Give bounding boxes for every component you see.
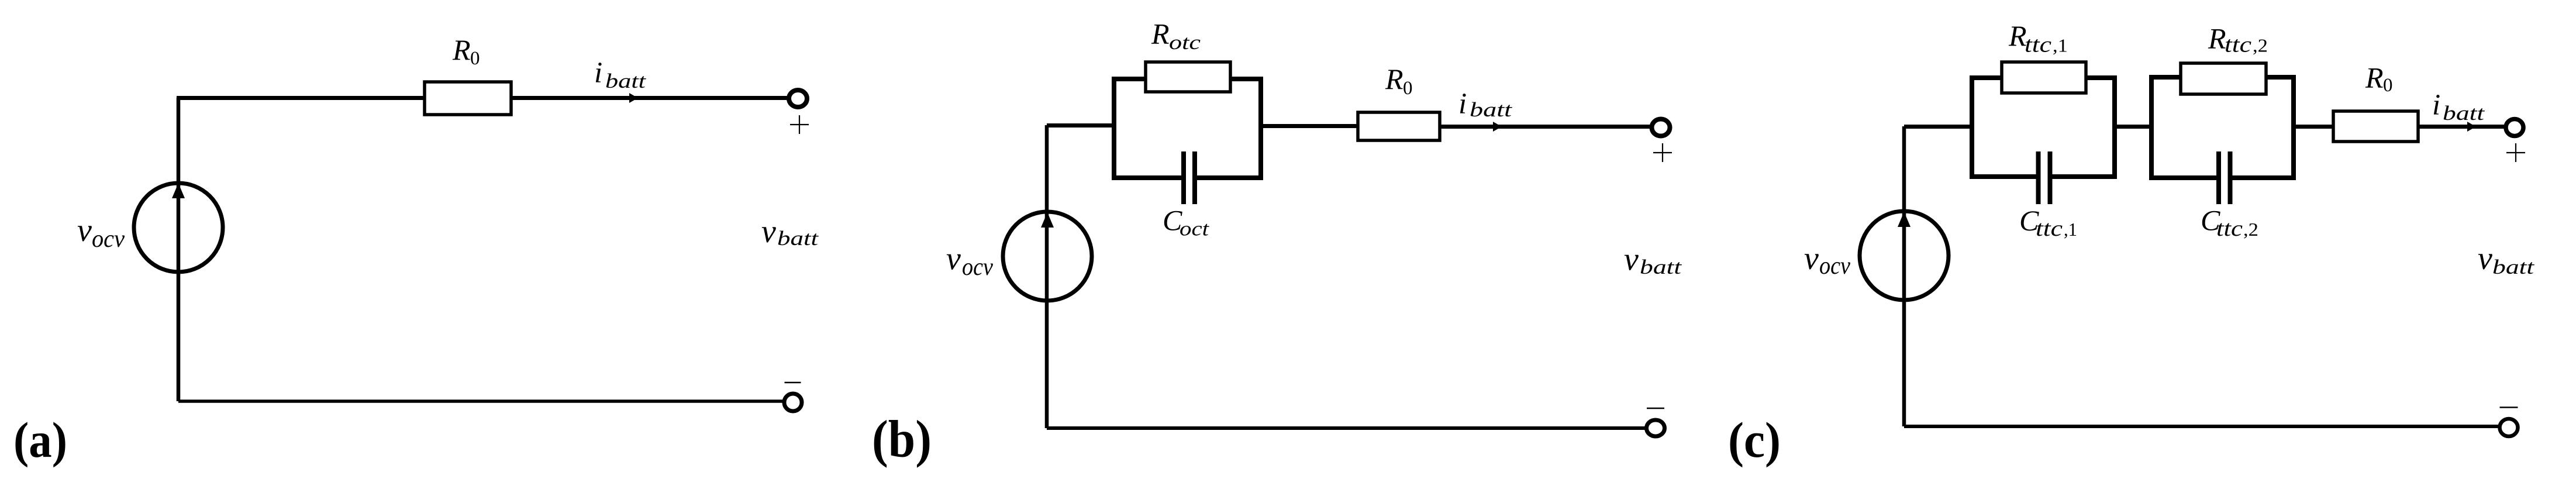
svg-text:,2: ,2 (2253, 35, 2268, 56)
svg-text:batt: batt (2492, 256, 2535, 278)
svg-text:ocv: ocv (92, 226, 125, 253)
svg-text:batt: batt (1470, 98, 1513, 121)
svg-text:i: i (1458, 88, 1467, 120)
svg-text:batt: batt (1640, 256, 1682, 278)
svg-text:R: R (452, 33, 471, 66)
svg-text:R: R (2208, 22, 2226, 55)
svg-text:v: v (1804, 240, 1819, 277)
svg-text:R: R (2008, 19, 2027, 52)
svg-text:(a): (a) (13, 412, 67, 468)
svg-text:v: v (761, 213, 776, 250)
svg-text:batt: batt (605, 70, 647, 92)
svg-text:batt: batt (777, 227, 819, 250)
svg-text:0: 0 (470, 48, 480, 69)
svg-text:i: i (2432, 89, 2440, 122)
svg-text:,1: ,1 (2064, 219, 2077, 240)
svg-text:R: R (1151, 18, 1170, 50)
svg-text:ttc: ttc (2036, 216, 2063, 241)
svg-text:v: v (77, 212, 92, 249)
svg-text:oct: oct (1180, 218, 1209, 240)
svg-text:v: v (946, 241, 961, 277)
svg-text:R: R (1385, 63, 1403, 95)
svg-text:R: R (2365, 61, 2384, 94)
svg-text:0: 0 (1403, 78, 1413, 99)
svg-text:(b): (b) (872, 410, 932, 468)
svg-text:v: v (2478, 240, 2492, 277)
svg-text:ttc: ttc (2216, 216, 2243, 241)
svg-text:otc: otc (1169, 31, 1201, 54)
svg-text:0: 0 (2383, 75, 2393, 96)
svg-text:ttc: ttc (2225, 33, 2251, 57)
svg-text:,2: ,2 (2243, 219, 2258, 240)
svg-text:i: i (594, 57, 602, 89)
svg-text:ocv: ocv (962, 254, 993, 281)
svg-text:v: v (1624, 242, 1639, 278)
svg-text:ttc: ttc (2025, 33, 2051, 57)
svg-text:ocv: ocv (1819, 253, 1850, 280)
svg-text:(c): (c) (1728, 412, 1781, 468)
svg-text:,1: ,1 (2053, 35, 2068, 56)
svg-text:batt: batt (2443, 102, 2485, 125)
